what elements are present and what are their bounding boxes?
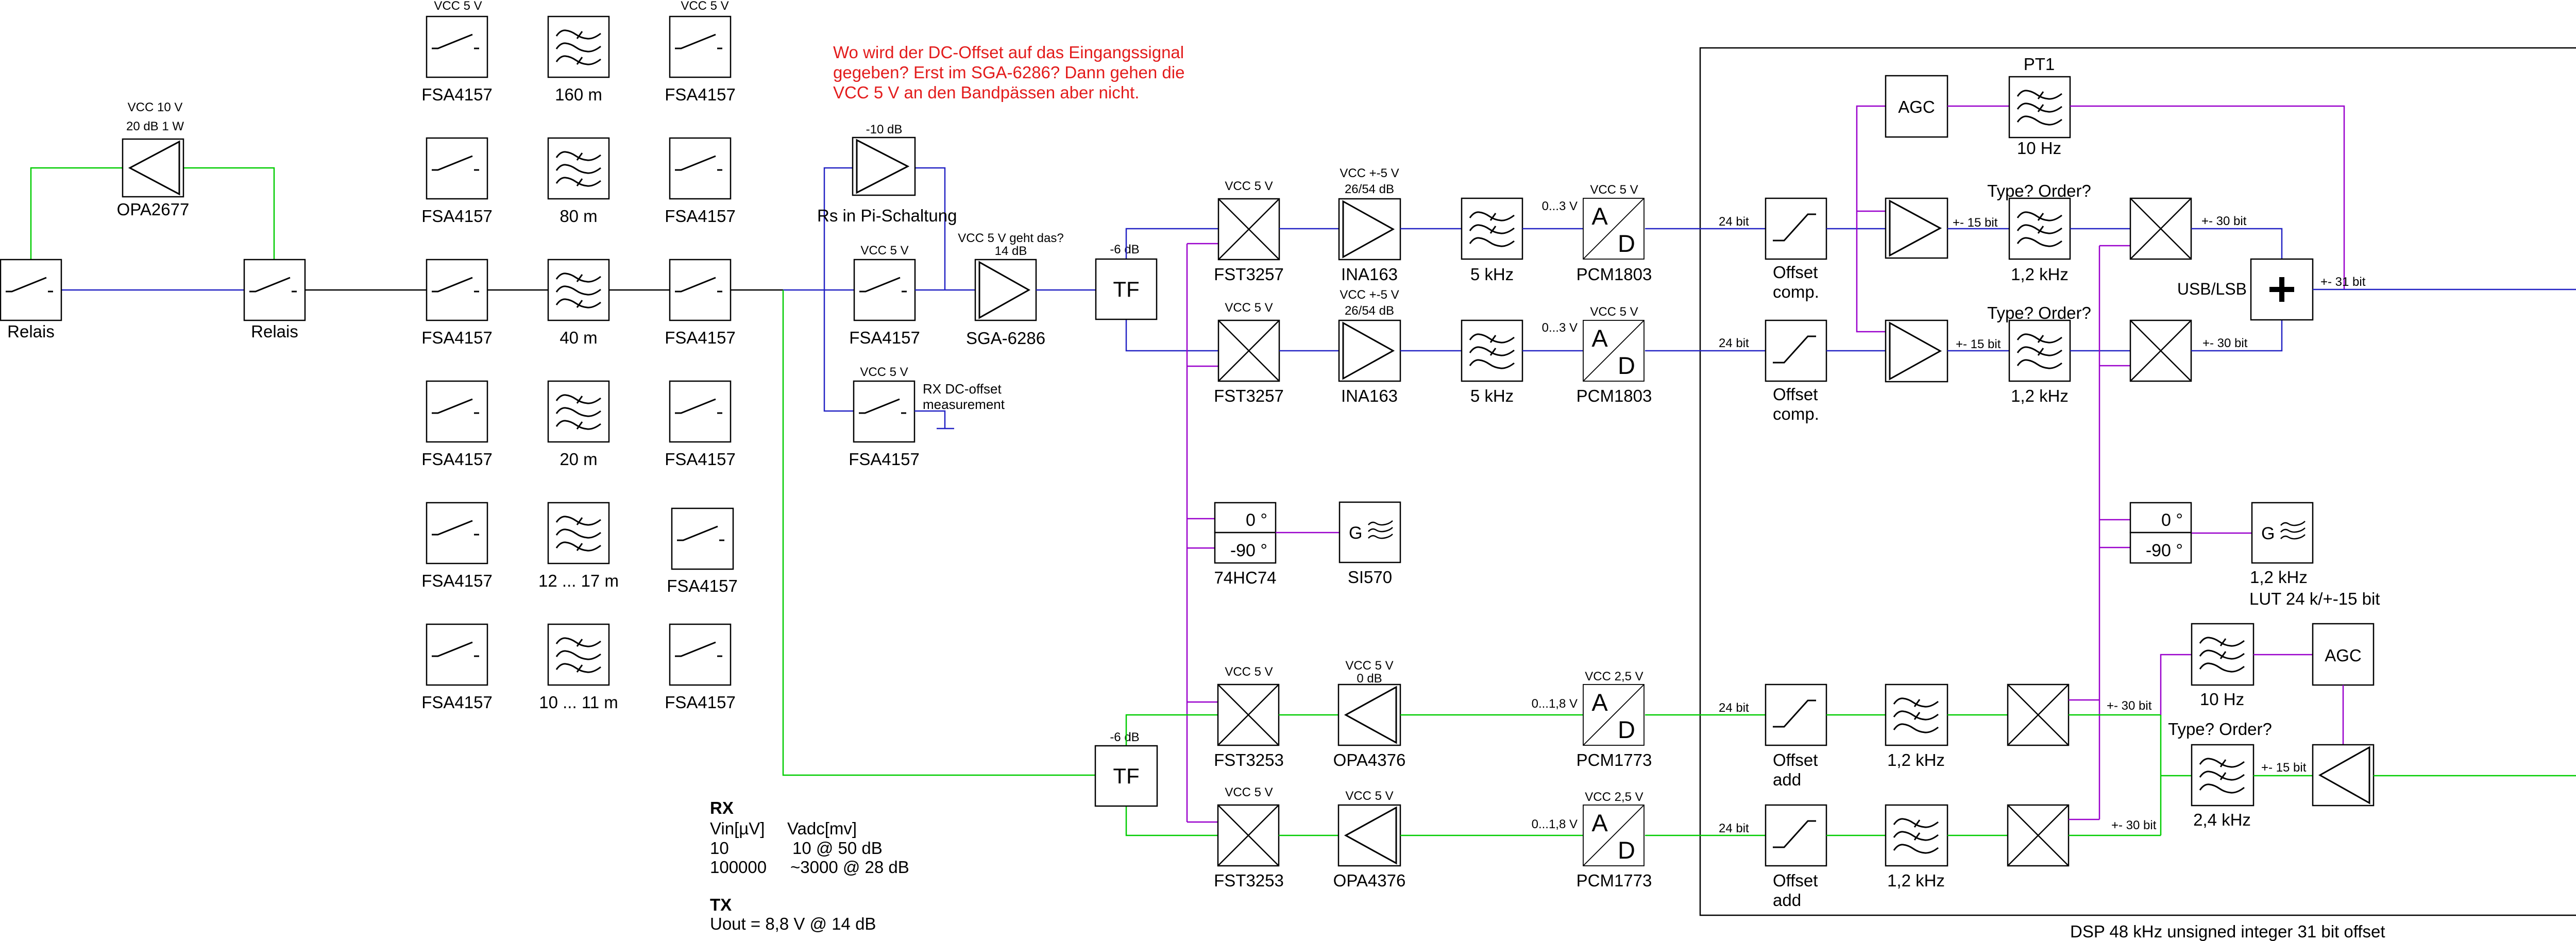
mixer multiplier Q: [2130, 320, 2191, 381]
svg-text:FST3257: FST3257: [1214, 386, 1284, 405]
svg-text:FSA4157: FSA4157: [665, 450, 736, 469]
wire: green 2.4kHz to TX amp: [2253, 775, 2313, 777]
svg-text:12 ... 17 m: 12 ... 17 m: [538, 571, 619, 590]
svg-text:D: D: [1618, 836, 1635, 864]
wire: purple NCO bus to phase splitter stubs: [2099, 519, 2130, 521]
svg-text:VCC 5 V: VCC 5 V: [1590, 305, 1638, 319]
svg-text:SI570: SI570: [1348, 568, 1392, 587]
filter PT1 10 Hz: [2009, 77, 2070, 138]
svg-text:FSA4157: FSA4157: [665, 328, 736, 347]
phase splitter 0/-90 digital: [2130, 503, 2191, 533]
svg-text:160 m: 160 m: [555, 85, 602, 104]
wire: green 1.2kHz to mixer TX Q: [1947, 835, 2008, 836]
svg-text:Rs in Pi-Schaltung: Rs in Pi-Schaltung: [817, 206, 957, 225]
band row 4: bandpass filter 20 m: [548, 381, 609, 442]
DAC PCM1773 I: [1583, 685, 1644, 745]
wire: green FST3253 to OPA4376 Q: [1279, 835, 1338, 836]
filter 10 Hz AGC: [2192, 624, 2253, 685]
filter 5 kHz Q: [1462, 320, 1522, 381]
wire: blue PCM1803 Q to offset comp: [1645, 350, 1766, 352]
svg-text:AGC: AGC: [2325, 646, 2362, 665]
mixer FST3257 I: [1218, 199, 1279, 260]
svg-text:VCC 5 V: VCC 5 V: [1345, 789, 1393, 803]
wire: blue -10dB amp output to main: [915, 168, 945, 290]
wire: blue DC-offset to ground: [914, 411, 954, 429]
svg-text:AGC: AGC: [1898, 97, 1935, 116]
svg-text:10 Hz: 10 Hz: [2200, 690, 2244, 709]
svg-text:VCC 5 V: VCC 5 V: [1225, 785, 1273, 799]
svg-text:0 °: 0 °: [1246, 510, 1267, 530]
svg-text:20 dB 1 W: 20 dB 1 W: [126, 119, 184, 133]
mixer FST3253 I: [1218, 685, 1279, 745]
svg-text:+- 15 bit: +- 15 bit: [2261, 761, 2307, 775]
svg-text:A: A: [1591, 324, 1608, 352]
wire: purple NCO bus vertical: [2099, 246, 2100, 819]
svg-text:OPA4376: OPA4376: [1333, 750, 1406, 769]
wire: blue INA to 5kHz Q: [1400, 350, 1462, 352]
wire: blue 5kHz to PCM1803 Q: [1522, 350, 1583, 352]
transformer TF1: [1096, 259, 1157, 319]
svg-text:VCC 5 V: VCC 5 V: [1225, 179, 1273, 193]
svg-text:FSA4157: FSA4157: [421, 328, 493, 347]
wire: purple AGC1 gain control net: [1857, 106, 1886, 332]
svg-text:D: D: [1618, 230, 1635, 257]
svg-text:VCC +-5 V: VCC +-5 V: [1340, 166, 1399, 180]
svg-text:1,2 kHz: 1,2 kHz: [2250, 568, 2308, 587]
svg-text:24 bit: 24 bit: [1719, 701, 1749, 715]
svg-text:0...3 V: 0...3 V: [1542, 199, 1578, 213]
svg-text:0...1,8 V: 0...1,8 V: [1532, 697, 1578, 711]
svg-text:comp.: comp.: [1773, 404, 1819, 423]
filter 1,2 kHz TX Q: [1886, 805, 1947, 866]
wire: green PCM1773 to offset add Q: [1645, 835, 1766, 836]
wire: blue INA to 5kHz I: [1400, 228, 1462, 230]
wire: blue I mixer to INA163: [1279, 228, 1339, 230]
wire: green TX loop relais1 to OPA2677: [31, 168, 274, 260]
svg-text:24 bit: 24 bit: [1719, 215, 1749, 229]
wire: green 1.2kHz to mixer TX I: [1947, 714, 2008, 716]
svg-text:+- 30 bit: +- 30 bit: [2107, 699, 2152, 713]
op-amp OPA2677 TX PA 20 dB 1 W: [123, 139, 183, 197]
op-amp OPA4376 I: [1338, 685, 1400, 745]
svg-text:TX: TX: [710, 895, 732, 914]
mixer multiplier I: [2130, 198, 2191, 259]
oscillator NCO 1,2 kHz LUT: [2252, 503, 2313, 563]
svg-text:~3000 @ 28 dB: ~3000 @ 28 dB: [790, 858, 909, 877]
svg-text:1,2 kHz: 1,2 kHz: [1887, 871, 1945, 890]
svg-text:VCC 5 V: VCC 5 V: [1345, 659, 1393, 673]
svg-text:SGA-6286: SGA-6286: [966, 329, 1045, 348]
svg-text:-90 °: -90 °: [2146, 541, 2183, 560]
svg-text:VCC 5 V: VCC 5 V: [434, 0, 482, 13]
svg-text:Offset: Offset: [1773, 385, 1818, 404]
svg-text:FSA4157: FSA4157: [667, 576, 738, 595]
svg-text:10 ... 11 m: 10 ... 11 m: [539, 693, 618, 712]
svg-text:26/54 dB: 26/54 dB: [1345, 182, 1394, 196]
wire: purple 74HC74 to SI570: [1276, 532, 1340, 534]
band row 2: bandpass filter 80 m: [548, 138, 609, 199]
relay K2 (Relais): [244, 260, 305, 320]
wire: black relais2 to band switch grid: [306, 289, 427, 291]
svg-text:FSA4157: FSA4157: [665, 207, 736, 226]
DAC PCM1773 Q: [1583, 805, 1644, 866]
svg-text:0 dB: 0 dB: [1357, 672, 1382, 686]
svg-text:FST3253: FST3253: [1214, 871, 1284, 890]
filter 5 kHz I: [1462, 198, 1522, 259]
DSP boundary box: [1700, 48, 2576, 915]
svg-text:Type? Order?: Type? Order?: [1987, 303, 2091, 322]
svg-text:Vin[µV]: Vin[µV]: [710, 819, 765, 838]
filter 1,2 kHz Q: [2009, 320, 2070, 381]
svg-text:INA163: INA163: [1341, 265, 1398, 284]
svg-text:10 @ 50 dB: 10 @ 50 dB: [792, 839, 883, 858]
wire: purple AGC tap to 10 Hz: [2161, 655, 2192, 715]
svg-text:TF: TF: [1113, 764, 1139, 788]
svg-text:0...1,8 V: 0...1,8 V: [1532, 817, 1578, 831]
svg-text:74HC74: 74HC74: [1214, 568, 1276, 587]
svg-text:80 m: 80 m: [560, 207, 597, 226]
band row 5: bandpass filter 12 ... 17 m: [548, 503, 609, 563]
svg-text:10: 10: [710, 839, 729, 858]
svg-text:20 m: 20 m: [560, 450, 597, 469]
band row 5: switch FSA4157 (left): [427, 503, 487, 563]
svg-text:Offset: Offset: [1773, 871, 1818, 890]
svg-text:VCC +-5 V: VCC +-5 V: [1340, 288, 1399, 302]
band row 1: bandpass filter 160 m: [548, 16, 609, 77]
svg-text:A: A: [1591, 689, 1608, 716]
block AGC2: [2313, 624, 2374, 685]
svg-text:5 kHz: 5 kHz: [1470, 386, 1514, 405]
wire: blue relais1-relais2: [62, 289, 244, 291]
op-amp OPA4376 Q: [1338, 805, 1400, 866]
svg-text:FSA4157: FSA4157: [421, 571, 493, 590]
svg-text:Vadc[mv]: Vadc[mv]: [787, 819, 857, 838]
svg-text:VCC 2,5 V: VCC 2,5 V: [1585, 670, 1643, 683]
svg-text:Relais: Relais: [251, 322, 298, 341]
wire: green TF2 bottom to FST3253 Q: [1126, 806, 1218, 835]
wire: green OPA4376 to PCM1773 I: [1400, 714, 1583, 716]
wire: blue amp to 1.2kHz Q: [1947, 350, 2009, 352]
svg-text:Offset: Offset: [1773, 750, 1818, 769]
svg-text:FSA4157: FSA4157: [665, 85, 736, 104]
band row 2: switch FSA4157 (right): [670, 138, 731, 199]
svg-text:FST3253: FST3253: [1214, 750, 1284, 769]
svg-text:Offset: Offset: [1773, 263, 1818, 282]
svg-text:RX: RX: [710, 798, 734, 817]
svg-text:measurement: measurement: [923, 397, 1005, 412]
block Offset comp. Q: [1766, 320, 1826, 381]
filter 1,2 kHz TX I: [1886, 685, 1947, 745]
wire: green mixer TX Q output: [2069, 835, 2161, 836]
svg-text:24 bit: 24 bit: [1719, 822, 1749, 835]
svg-text:add: add: [1773, 770, 1801, 789]
svg-text:+- 30 bit: +- 30 bit: [2202, 336, 2248, 350]
transformer TF2: [1095, 746, 1157, 806]
band row 6: switch FSA4157 (right): [670, 624, 731, 685]
svg-text:DSP 48 kHz unsigned integer 31: DSP 48 kHz unsigned integer 31 bit offse…: [2070, 922, 2385, 941]
wire: purple NCO to mixer I: [2099, 245, 2130, 247]
svg-text:VCC 5 V: VCC 5 V: [681, 0, 728, 13]
wire: purple AGC2 to TX amp: [2343, 685, 2344, 745]
wire: blue offsetcomp to amp I: [1826, 228, 1886, 230]
svg-text:VCC 5 V: VCC 5 V: [860, 365, 908, 379]
wire: green mixer TX I output: [2069, 714, 2161, 716]
wire: blue mixer I to adder: [2191, 229, 2282, 259]
svg-text:VCC 5 V: VCC 5 V: [860, 244, 908, 258]
svg-text:-6 dB: -6 dB: [1110, 243, 1139, 256]
svg-text:-10 dB: -10 dB: [866, 123, 903, 136]
wire: purple splitter to NCO G: [2192, 533, 2252, 534]
wire: green PCM1773 to offset add I: [1645, 714, 1766, 716]
svg-text:G: G: [2261, 524, 2275, 543]
band row 3: switch FSA4157 (right): [670, 260, 731, 320]
wire: purple LO to FST3257 Q: [1187, 366, 1218, 367]
wire: blue 1.2kHz to mixer I: [2070, 228, 2130, 230]
svg-text:FSA4157: FSA4157: [665, 693, 736, 712]
svg-text:OPA4376: OPA4376: [1333, 871, 1406, 890]
wire: blue Q mixer to INA163: [1279, 350, 1339, 352]
svg-text:2,4 kHz: 2,4 kHz: [2193, 810, 2251, 829]
svg-text:100000: 100000: [710, 858, 767, 877]
amplifier -10 dB (Rs in Pi-Schaltung): [853, 138, 915, 195]
wire: green offset add to 1.2kHz I: [1826, 714, 1886, 716]
svg-text:1,2 kHz: 1,2 kHz: [1887, 750, 1945, 769]
svg-text:1,2 kHz: 1,2 kHz: [2011, 265, 2069, 284]
band row 1: switch FSA4157 (right): [670, 16, 731, 77]
wire: purple mixer TX I to NCO bus: [2069, 699, 2099, 701]
mixer multiplier TX Q: [2008, 805, 2069, 866]
svg-text:FST3257: FST3257: [1214, 265, 1284, 284]
wire: blue 1.2kHz to mixer Q: [2070, 350, 2130, 352]
svg-text:D: D: [1618, 352, 1635, 379]
mixer FST3257 Q: [1218, 320, 1279, 381]
svg-text:Type? Order?: Type? Order?: [1987, 181, 2091, 200]
wire: blue TF1 top output to I mixer: [1126, 229, 1218, 259]
amplifier TX gain (AGC controlled): [2313, 745, 2374, 806]
wire: blue mixer Q to adder: [2191, 320, 2282, 351]
svg-text:14 dB: 14 dB: [995, 244, 1027, 258]
band row 2: switch FSA4157 (left): [427, 138, 487, 199]
adder USB/LSB sum block: [2251, 259, 2313, 320]
svg-text:gegeben? Erst im SGA-6286? Dan: gegeben? Erst im SGA-6286? Dann gehen di…: [833, 63, 1184, 82]
wire: purple PT1 to summed output node: [2070, 106, 2344, 289]
wire: blue 5kHz to PCM1803 I: [1522, 228, 1583, 230]
svg-text:LUT 24 k/+-15 bit: LUT 24 k/+-15 bit: [2249, 589, 2380, 608]
svg-text:Type? Order?: Type? Order?: [2168, 720, 2272, 739]
wire: purple mixer TX Q to NCO bus: [2069, 819, 2099, 820]
wire: blue TF1 bottom output to Q mixer: [1126, 319, 1218, 351]
wire: blue main to RX switch: [783, 289, 854, 291]
wire: blue SGA to TF: [1036, 289, 1096, 291]
svg-text:add: add: [1773, 891, 1801, 910]
mixer FST3253 Q: [1218, 805, 1279, 866]
svg-text:1,2 kHz: 1,2 kHz: [2011, 386, 2069, 405]
wire: purple LO bus vertical: [1187, 244, 1188, 822]
wire: green offset add to 1.2kHz Q: [1826, 835, 1886, 836]
wire: purple bus to FST3253 I: [1187, 702, 1218, 703]
divider 74HC74 0/-90: [1215, 503, 1276, 533]
band row 5: switch FSA4157 (right, offset): [672, 508, 733, 569]
wire: green OPA4376 to PCM1773 Q: [1400, 835, 1583, 836]
amplifier variable gain I: [1886, 198, 1947, 258]
wire: green TX amp to offset comp: [2374, 775, 2576, 777]
svg-text:comp.: comp.: [1773, 282, 1819, 301]
svg-text:PCM1803: PCM1803: [1577, 265, 1652, 284]
svg-text:+- 30 bit: +- 30 bit: [2201, 214, 2247, 228]
mixer multiplier TX I: [2008, 685, 2069, 745]
svg-text:-6 dB: -6 dB: [1110, 730, 1139, 744]
band row 4: switch FSA4157 (left): [427, 381, 487, 442]
filter 1,2 kHz I: [2009, 198, 2070, 259]
svg-text:PCM1773: PCM1773: [1577, 750, 1652, 769]
svg-text:VCC 2,5 V: VCC 2,5 V: [1585, 790, 1643, 804]
svg-text:-90 °: -90 °: [1230, 541, 1267, 560]
svg-text:FSA4157: FSA4157: [421, 693, 493, 712]
wire: blue FSA to SGA: [915, 289, 975, 291]
wire: purple bus to 74HC74 stubs: [1187, 518, 1215, 520]
svg-text:FSA4157: FSA4157: [421, 207, 493, 226]
band row 4: switch FSA4157 (right): [670, 381, 731, 442]
svg-text:TF: TF: [1113, 277, 1139, 301]
wire: black through 40m row: [487, 289, 548, 291]
svg-text:+- 15 bit: +- 15 bit: [1953, 216, 1998, 230]
svg-text:0 °: 0 °: [2161, 510, 2183, 530]
block AGC1: [1886, 76, 1947, 137]
svg-text:FSA4157: FSA4157: [421, 450, 493, 469]
svg-text:24 bit: 24 bit: [1719, 336, 1749, 350]
svg-text:PCM1803: PCM1803: [1577, 386, 1652, 405]
amplifier INA163 Q: [1339, 320, 1400, 381]
svg-text:VCC 5 V: VCC 5 V: [1590, 183, 1638, 197]
band row 3: switch FSA4157 (left): [427, 260, 487, 320]
svg-text:Relais: Relais: [7, 322, 55, 341]
svg-text:OPA2677: OPA2677: [117, 200, 190, 219]
svg-text:VCC 5 V an den Bandpässen aber: VCC 5 V an den Bandpässen aber nicht.: [833, 83, 1139, 102]
wire: green TX main from band grid to TF2: [783, 290, 1095, 775]
wire: purple AGC1 to PT1: [1947, 106, 2009, 107]
svg-text:INA163: INA163: [1341, 386, 1398, 405]
svg-text:0...3 V: 0...3 V: [1542, 321, 1578, 335]
svg-text:G: G: [1349, 523, 1362, 543]
band row 3: bandpass filter 40 m: [548, 260, 609, 320]
svg-text:Wo wird der DC-Offset auf das: Wo wird der DC-Offset auf das Eingangssi…: [833, 43, 1184, 62]
wire: purple NCO to mixer Q: [2099, 365, 2130, 367]
svg-text:10 Hz: 10 Hz: [2017, 139, 2061, 158]
svg-text:VCC 5 V: VCC 5 V: [1225, 665, 1273, 679]
amplifier variable gain Q: [1886, 320, 1947, 382]
svg-text:D: D: [1618, 716, 1635, 743]
wire: blue bypass vertical: [824, 168, 854, 411]
svg-text:A: A: [1591, 809, 1608, 836]
wire: purple bus to FST3253 Q: [1187, 822, 1218, 823]
svg-text:FSA4157: FSA4157: [421, 85, 493, 104]
wire: purple LO to FST3257 I: [1187, 243, 1218, 245]
wire: green TF2 top to FST3253 I: [1126, 715, 1218, 746]
wire: blue amp to 1.2kHz I: [1947, 228, 2009, 230]
svg-text:40 m: 40 m: [560, 328, 597, 347]
svg-text:FSA4157: FSA4157: [849, 450, 920, 469]
svg-text:+- 30 bit: +- 30 bit: [2111, 818, 2157, 832]
block Offset add I: [1766, 685, 1826, 745]
svg-text:VCC 5 V: VCC 5 V: [1225, 301, 1273, 315]
svg-text:A: A: [1591, 202, 1608, 230]
svg-text:26/54 dB: 26/54 dB: [1345, 304, 1394, 318]
wire: blue PCM1803 I to offset comp: [1645, 228, 1766, 230]
svg-text:PCM1773: PCM1773: [1577, 871, 1652, 890]
band row 6: switch FSA4157 (left): [427, 624, 487, 685]
block Offset comp. I: [1766, 198, 1826, 259]
wire: green TX sum vertical: [2161, 715, 2192, 835]
ADC PCM1803 I: [1583, 198, 1644, 259]
svg-text:VCC 5 V geht das?: VCC 5 V geht das?: [958, 231, 1063, 245]
wire: purple 10Hz to AGC2: [2253, 654, 2313, 656]
wire: green FST3253 to OPA4376 I: [1279, 714, 1338, 716]
switch FSA4157 RX input: [854, 260, 915, 320]
oscillator SI570: [1340, 502, 1400, 562]
svg-text:PT1: PT1: [2024, 55, 2055, 74]
svg-text:Uout = 8,8 V @ 14 dB: Uout = 8,8 V @ 14 dB: [710, 914, 876, 933]
svg-text:+- 15 bit: +- 15 bit: [1956, 337, 2001, 351]
band row 6: bandpass filter 10 ... 11 m: [548, 624, 609, 685]
filter 2,4 kHz TX: [2192, 745, 2253, 806]
amplifier SGA-6286 14 dB: [975, 260, 1036, 320]
svg-text:5 kHz: 5 kHz: [1470, 265, 1514, 284]
amplifier INA163 I: [1339, 199, 1400, 260]
ADC PCM1803 Q: [1583, 320, 1644, 381]
svg-text:USB/LSB: USB/LSB: [2177, 280, 2247, 298]
relay K1 (Relais): [1, 260, 61, 320]
svg-text:RX DC-offset: RX DC-offset: [923, 381, 1002, 397]
wire: blue offsetcomp to amp Q: [1826, 350, 1886, 352]
block Offset add Q: [1766, 805, 1826, 866]
band row 1: switch FSA4157 (left): [427, 16, 487, 77]
svg-text:+- 31 bit: +- 31 bit: [2320, 275, 2366, 289]
switch FSA4157 RX DC-offset measurement: [854, 381, 914, 442]
wire: blue adder output: [2313, 289, 2576, 290]
svg-text:VCC 10 V: VCC 10 V: [128, 100, 183, 114]
svg-text:FSA4157: FSA4157: [849, 328, 920, 347]
